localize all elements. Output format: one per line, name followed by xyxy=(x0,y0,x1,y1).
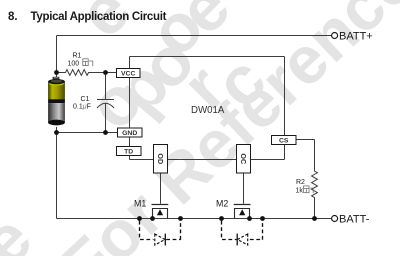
svg-text:e: e xyxy=(64,0,144,52)
svg-text:R1: R1 xyxy=(73,52,82,59)
svg-text:BATT-: BATT- xyxy=(339,213,370,225)
svg-text:1k: 1k xyxy=(296,187,304,194)
svg-text:VCC: VCC xyxy=(121,70,135,77)
svg-text:Typical Application Circuit: Typical Application Circuit xyxy=(31,11,167,23)
svg-text:M1: M1 xyxy=(134,198,146,208)
svg-text:M2: M2 xyxy=(216,198,228,208)
svg-text:BATT+: BATT+ xyxy=(339,30,373,42)
svg-text:OD: OD xyxy=(156,153,165,164)
svg-text:TD: TD xyxy=(124,148,133,155)
svg-text:R2: R2 xyxy=(296,179,305,186)
svg-text:CS: CS xyxy=(279,137,289,144)
svg-text:100: 100 xyxy=(68,60,80,67)
svg-text:GND: GND xyxy=(122,130,137,137)
svg-text:0.1μF: 0.1μF xyxy=(73,104,91,111)
svg-text:OC: OC xyxy=(239,153,248,164)
svg-text:e: e xyxy=(0,200,46,256)
svg-text:C1: C1 xyxy=(81,96,90,103)
svg-text:8.: 8. xyxy=(8,11,18,23)
svg-text:DW01A: DW01A xyxy=(191,105,225,116)
